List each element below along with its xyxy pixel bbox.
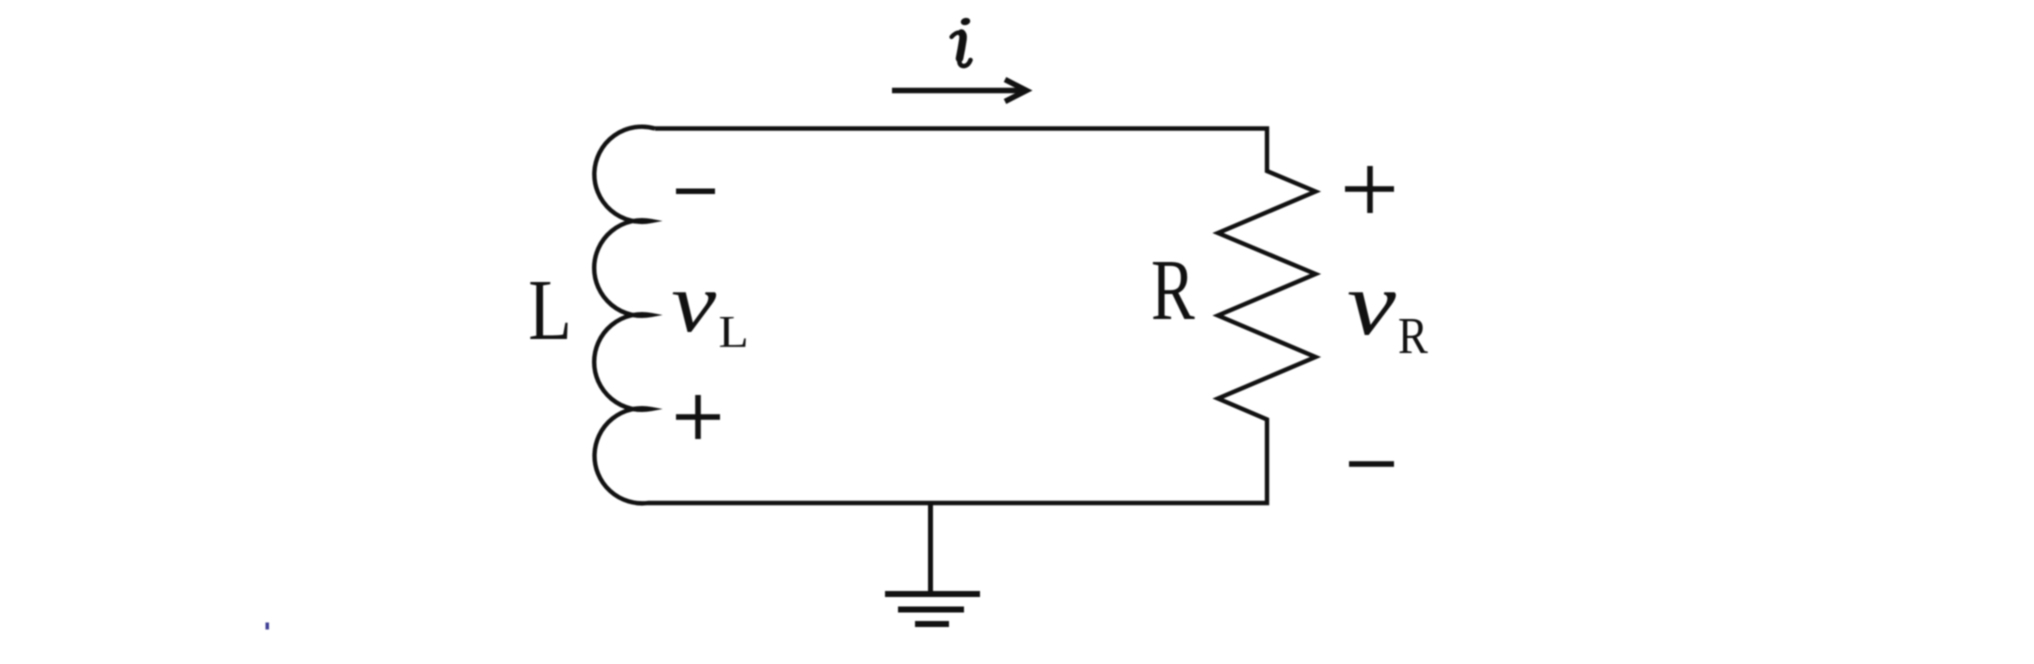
- svg-text:L: L: [719, 308, 749, 357]
- svg-text:R: R: [1151, 242, 1195, 338]
- svg-text:L: L: [528, 262, 572, 358]
- svg-text:v: v: [1347, 253, 1396, 354]
- svg-text:R: R: [1398, 308, 1428, 365]
- svg-text:v: v: [671, 256, 716, 350]
